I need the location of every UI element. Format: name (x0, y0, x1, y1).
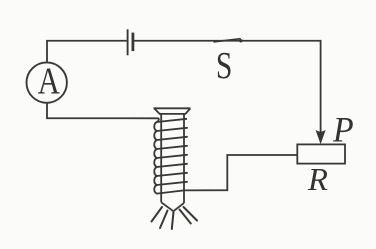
svg-text:P: P (332, 110, 354, 150)
svg-text:A: A (38, 59, 60, 102)
svg-text:R: R (307, 161, 328, 196)
svg-text:S: S (216, 45, 232, 86)
